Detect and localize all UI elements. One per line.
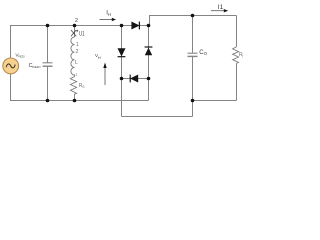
svg-text:PIEZO: PIEZO <box>32 65 41 69</box>
svg-text:S: S <box>82 85 85 89</box>
svg-text:I1: I1 <box>218 4 224 11</box>
svg-text:1: 1 <box>76 42 79 48</box>
svg-text:L: L <box>75 60 78 66</box>
svg-text:O: O <box>204 51 208 56</box>
svg-text:l: l <box>242 55 243 59</box>
svg-text:2: 2 <box>76 49 79 55</box>
svg-text:U1: U1 <box>79 32 85 38</box>
svg-text:H: H <box>108 12 111 17</box>
svg-text:PIEZO: PIEZO <box>18 54 25 58</box>
svg-text:1: 1 <box>75 72 78 78</box>
svg-text:2: 2 <box>75 18 78 24</box>
svg-text:H: H <box>98 55 101 60</box>
